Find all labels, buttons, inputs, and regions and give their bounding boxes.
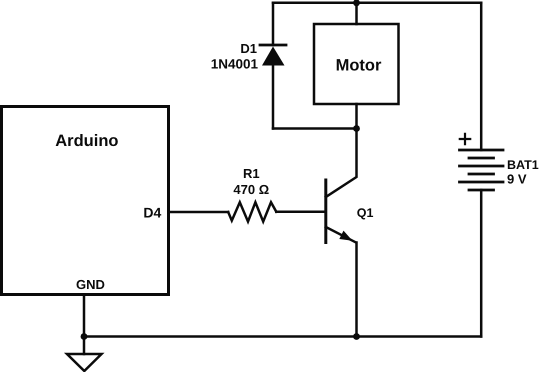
svg-text:9 V: 9 V [507,172,527,187]
node junction emitter / bottom rail [353,333,360,340]
wire emitter lead down [355,243,358,337]
battery BAT1 plate long 2 [460,165,504,168]
battery BAT1 plate long top [460,149,504,152]
wire base lead from D4 to resistor [169,211,229,214]
svg-text:BAT1: BAT1 [507,158,539,172]
wire collector lead of Q1 [326,129,357,198]
wire right side battery top [480,3,483,150]
node junction motor bottom / diode [353,125,360,132]
wire right side battery bottom [480,190,483,337]
svg-text:D4: D4 [143,205,161,221]
wire diode anode branch top [272,3,275,45]
svg-text:GND: GND [76,277,105,292]
wire resistor to base bar [276,211,325,214]
node junction GND / bottom rail [81,333,88,340]
battery BAT1 plate short 1 [469,157,494,160]
wire GND pin down from Arduino [83,295,86,355]
wire diode cathode branch bottom [272,66,275,129]
svg-text:Q1: Q1 [357,206,374,220]
transistor Q1 base bar [324,180,327,243]
Arduino box U (Arduino) [2,107,169,295]
wire diode branch to motor bottom node [273,127,357,130]
diode D1 triangle [262,47,285,66]
svg-text:D1: D1 [240,41,257,56]
wire top rail from diode branch to battery [273,2,481,5]
svg-text:Motor: Motor [336,56,382,74]
svg-text:1N4001: 1N4001 [211,56,259,71]
motor box M1 [314,24,399,104]
diode D1 cathode bar [260,44,286,47]
transistor Q1 emitter arrowhead [339,231,352,241]
transistor Q1 emitter diagonal [326,227,356,243]
battery BAT1 plate short 2 [469,173,494,176]
resistor R1 zigzag [228,202,276,221]
wire motor bottom lead [355,104,358,129]
battery plus sign [460,134,470,144]
battery BAT1 plate short 3 [469,189,494,192]
svg-text:Arduino: Arduino [55,132,118,150]
wire bottom rail [84,335,481,338]
svg-text:470 Ω: 470 Ω [233,182,269,197]
ground symbol [67,354,102,371]
battery BAT1 plate long 3 [460,181,504,184]
svg-text:R1: R1 [243,166,260,181]
node junction top rail / motor [353,0,360,6]
wire motor top lead [355,3,358,24]
